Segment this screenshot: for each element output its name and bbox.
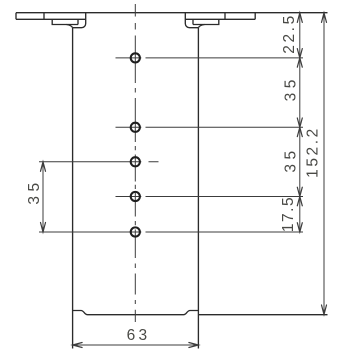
hole row line 5 (extends to left dimension)	[39, 231, 303, 233]
arrowhead 17.5 bottom (down)	[297, 223, 302, 232]
body bottom edge line (extends right as extension line)	[88, 314, 328, 316]
svg-text:17.5: 17.5	[280, 196, 297, 232]
hole row line 1	[116, 57, 304, 59]
right tab fillet to body	[198, 25, 204, 28]
left tab fillet to body	[67, 25, 73, 28]
right tab flange cup	[193, 19, 219, 24]
left 35 dimension line	[42, 162, 44, 232]
bottom 63 dimension line	[73, 344, 199, 346]
top plate left end cap	[15, 13, 17, 20]
top plate top edge line	[16, 12, 328, 14]
hole circle 2	[131, 123, 140, 132]
arrowheads at row4 (chain X)	[297, 187, 302, 206]
arrowhead 63 left	[73, 343, 83, 348]
plate step tick left	[43, 13, 45, 20]
arrowhead 152.2 top (up)	[322, 13, 327, 23]
svg-text:22.5: 22.5	[281, 13, 298, 54]
left tab flange cup	[52, 19, 78, 24]
left tab outer bend	[73, 13, 86, 28]
hole circle 3	[131, 157, 140, 166]
body right edge (continues as extension line)	[197, 28, 199, 349]
hole row line 3 (extends to left dimension)	[39, 161, 159, 163]
top plate bottom edge left segment	[16, 18, 86, 20]
svg-text:35: 35	[283, 75, 300, 101]
vertical centerline	[134, 4, 136, 322]
arrowhead left 35 bottom (down)	[41, 223, 46, 233]
svg-text:63: 63	[127, 327, 151, 344]
plate step tick right	[224, 13, 226, 20]
svg-text:152.2: 152.2	[305, 126, 322, 178]
arrowheads at row1 (chain X)	[297, 49, 302, 68]
hole row line 2	[116, 126, 304, 128]
arrowhead 22.5 top (up)	[297, 13, 302, 23]
top plate bottom edge right segment	[185, 18, 255, 20]
hole circle 1	[131, 53, 140, 62]
body bottom right corner notch	[184, 311, 199, 315]
hole circle 4	[131, 192, 140, 201]
overall 152.2 dimension line	[323, 13, 325, 315]
top plate right end cap	[254, 13, 256, 20]
body bottom left corner notch	[73, 311, 88, 315]
arrowheads at row2 (chain X)	[297, 118, 302, 137]
body left edge (continues as extension line for 63)	[72, 28, 74, 349]
right chain dimension line	[299, 13, 301, 232]
arrowhead 63 right	[189, 343, 199, 348]
svg-text:35: 35	[283, 146, 300, 172]
svg-text:35: 35	[26, 178, 43, 204]
arrowhead 152.2 bottom (down)	[322, 305, 327, 315]
right tab outer bend	[185, 13, 198, 28]
arrowhead left 35 top (up)	[41, 162, 46, 172]
hole row line 4	[116, 196, 304, 198]
hole circle 5	[131, 227, 140, 236]
